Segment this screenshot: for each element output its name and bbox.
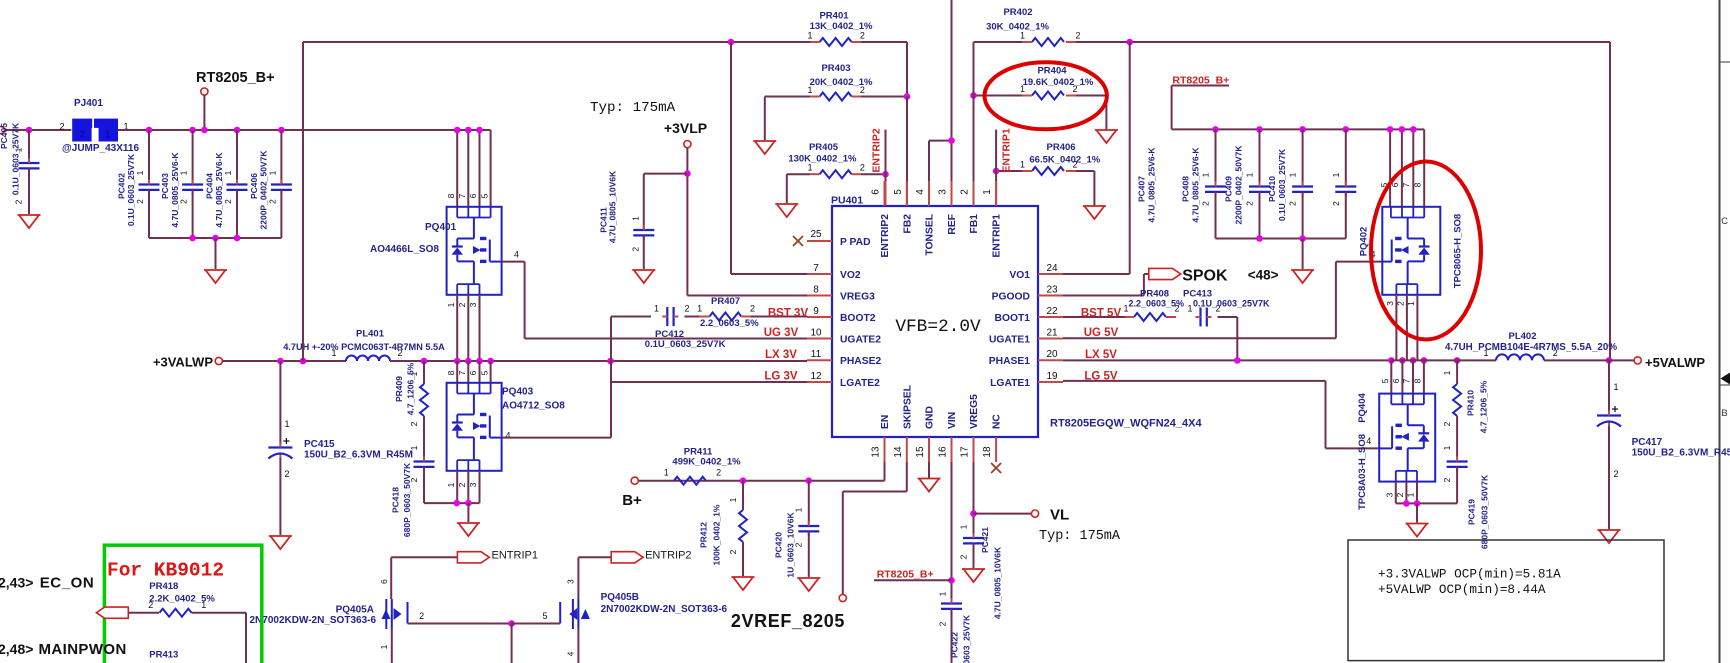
- svg-text:UG 3V: UG 3V: [764, 327, 799, 339]
- svg-text:6: 6: [468, 370, 478, 375]
- svg-text:0.1U_0603_25V7K: 0.1U_0603_25V7K: [126, 153, 136, 226]
- svg-text:PQ405A: PQ405A: [336, 605, 374, 616]
- svg-text:PQ404: PQ404: [1357, 392, 1368, 422]
- svg-text:PC402: PC402: [117, 173, 127, 199]
- svg-text:RT8205_B+: RT8205_B+: [196, 70, 275, 86]
- svg-text:1: 1: [1245, 172, 1255, 177]
- svg-text:3: 3: [565, 579, 575, 584]
- svg-text:P PAD: P PAD: [840, 237, 871, 248]
- svg-text:Typ: 175mA: Typ: 175mA: [590, 100, 676, 116]
- svg-text:680P_0603_50V7K: 680P_0603_50V7K: [1480, 474, 1490, 549]
- svg-text:20K_0402_1%: 20K_0402_1%: [810, 77, 873, 88]
- svg-text:11: 11: [811, 349, 822, 360]
- svg-text:2: 2: [684, 304, 689, 314]
- svg-text:5: 5: [480, 193, 490, 198]
- svg-text:+3VLP: +3VLP: [664, 120, 707, 136]
- svg-text:2: 2: [860, 163, 865, 173]
- svg-text:8: 8: [1413, 378, 1423, 383]
- svg-text:1: 1: [1288, 172, 1298, 177]
- svg-text:19.6K_0402_1%: 19.6K_0402_1%: [1023, 77, 1094, 88]
- svg-text:1: 1: [135, 170, 145, 175]
- svg-text:FB1: FB1: [969, 214, 980, 234]
- svg-text:PC415: PC415: [304, 439, 335, 450]
- svg-text:13K_0402_1%: 13K_0402_1%: [810, 21, 873, 32]
- svg-text:ENTRIP1: ENTRIP1: [1001, 128, 1013, 173]
- svg-text:1: 1: [409, 445, 419, 450]
- svg-text:ENTRIP2: ENTRIP2: [880, 214, 891, 258]
- svg-text:BST 3V: BST 3V: [768, 307, 809, 319]
- svg-text:ENTRIP2: ENTRIP2: [871, 128, 883, 173]
- svg-text:LGATE2: LGATE2: [840, 378, 880, 389]
- svg-text:For KB9012: For KB9012: [107, 560, 224, 582]
- svg-text:PR418: PR418: [149, 581, 178, 592]
- svg-text:4.7U_0805_10V6K: 4.7U_0805_10V6K: [993, 546, 1003, 619]
- svg-text:0.1U_0603_25V7K: 0.1U_0603_25V7K: [11, 122, 21, 195]
- svg-text:4: 4: [565, 651, 575, 656]
- svg-text:6: 6: [871, 189, 882, 195]
- svg-text:5: 5: [542, 611, 547, 621]
- svg-text:+3VALWP: +3VALWP: [153, 355, 213, 370]
- svg-text:C: C: [1721, 216, 1728, 227]
- svg-text:PQ405B: PQ405B: [601, 592, 639, 603]
- svg-text:UG 5V: UG 5V: [1084, 327, 1119, 339]
- svg-text:23: 23: [1046, 285, 1058, 296]
- svg-text:4: 4: [505, 431, 510, 441]
- svg-text:PR407: PR407: [711, 296, 740, 307]
- svg-text:PL402: PL402: [1509, 331, 1537, 342]
- svg-text:1: 1: [446, 302, 456, 307]
- svg-text:499K_0402_1%: 499K_0402_1%: [672, 457, 741, 468]
- svg-text:2: 2: [419, 611, 424, 621]
- svg-text:AO4712_SO8: AO4712_SO8: [502, 401, 565, 412]
- svg-text:1: 1: [1201, 172, 1211, 177]
- svg-text:2200P_0402_50V7K: 2200P_0402_50V7K: [259, 150, 269, 230]
- svg-text:2: 2: [1442, 421, 1452, 426]
- svg-text:16: 16: [938, 446, 949, 458]
- svg-text:6: 6: [379, 579, 389, 584]
- svg-text:4.7UH_PCMB104E-4R7MS_5.5A_20%: 4.7UH_PCMB104E-4R7MS_5.5A_20%: [1445, 342, 1617, 353]
- svg-text:PC410: PC410: [1267, 176, 1277, 202]
- svg-text:PC408: PC408: [1181, 176, 1191, 202]
- svg-text:ENTRIP2: ENTRIP2: [645, 550, 691, 562]
- svg-text:5: 5: [480, 370, 490, 375]
- svg-text:1: 1: [379, 644, 389, 649]
- svg-text:20: 20: [1046, 349, 1058, 360]
- svg-text:UGATE1: UGATE1: [989, 334, 1030, 345]
- svg-text:PR401: PR401: [819, 10, 849, 21]
- svg-text:PL401: PL401: [356, 329, 385, 340]
- svg-text:RT8205_B+: RT8205_B+: [877, 569, 934, 581]
- svg-text:PC418: PC418: [391, 487, 401, 513]
- svg-text:1: 1: [1442, 370, 1452, 375]
- svg-text:PR409: PR409: [394, 376, 404, 402]
- svg-text:14: 14: [893, 446, 904, 458]
- svg-text:4.7_1206_5%: 4.7_1206_5%: [1479, 380, 1489, 433]
- svg-text:2: 2: [938, 621, 948, 626]
- svg-text:8: 8: [446, 370, 456, 375]
- svg-text:+5VALWP OCP(min)=8.44A: +5VALWP OCP(min)=8.44A: [1378, 582, 1546, 597]
- svg-text:0.1U_0603_25V7K: 0.1U_0603_25V7K: [1193, 299, 1270, 309]
- svg-text:TONSEL: TONSEL: [925, 214, 936, 256]
- svg-text:TPC8A03-H_SO8: TPC8A03-H_SO8: [1357, 434, 1368, 510]
- svg-text:1: 1: [631, 216, 641, 221]
- svg-text:REF: REF: [947, 214, 958, 235]
- svg-text:1: 1: [1614, 382, 1619, 392]
- svg-text:2N7002KDW-2N_SOT363-6: 2N7002KDW-2N_SOT363-6: [601, 604, 728, 615]
- svg-text:PC421: PC421: [980, 527, 990, 553]
- svg-text:21: 21: [1046, 328, 1058, 339]
- svg-text:VFB=2.0V: VFB=2.0V: [895, 317, 981, 337]
- svg-text:LG 3V: LG 3V: [764, 371, 798, 383]
- svg-text:PC406: PC406: [249, 173, 259, 199]
- svg-text:EC_ON: EC_ON: [40, 575, 95, 592]
- svg-text:1: 1: [728, 497, 738, 502]
- svg-text:PU401: PU401: [831, 195, 863, 207]
- svg-text:5: 5: [893, 189, 904, 195]
- svg-text:4.7_1206_5%: 4.7_1206_5%: [406, 362, 416, 415]
- svg-text:1: 1: [654, 304, 659, 314]
- svg-text:BST 5V: BST 5V: [1081, 307, 1122, 319]
- svg-text:25: 25: [810, 229, 822, 240]
- svg-text:22: 22: [1046, 306, 1058, 317]
- svg-text:2: 2: [223, 199, 233, 204]
- svg-text:2: 2: [80, 130, 86, 141]
- svg-text:10: 10: [810, 328, 822, 339]
- svg-text:9: 9: [813, 306, 819, 317]
- svg-text:RT8205EGQW_WQFN24_4X4: RT8205EGQW_WQFN24_4X4: [1050, 418, 1202, 430]
- svg-text:PR410: PR410: [1466, 390, 1476, 416]
- svg-text:2,43>: 2,43>: [0, 575, 33, 591]
- svg-text:8: 8: [1413, 182, 1423, 187]
- svg-text:19: 19: [1046, 371, 1058, 382]
- svg-text:1: 1: [267, 170, 277, 175]
- svg-text:LG 5V: LG 5V: [1084, 371, 1118, 383]
- svg-text:2: 2: [59, 122, 64, 133]
- svg-text:4.7U_0805_25V6-K: 4.7U_0805_25V6-K: [1147, 147, 1157, 223]
- svg-text:2: 2: [860, 31, 865, 41]
- svg-text:VREG5: VREG5: [969, 394, 980, 429]
- svg-text:PJ401: PJ401: [74, 98, 103, 109]
- svg-text:AO4466L_SO8: AO4466L_SO8: [370, 244, 439, 255]
- svg-text:2: 2: [409, 421, 419, 426]
- svg-text:5: 5: [1380, 378, 1390, 383]
- svg-text:PR402: PR402: [1003, 7, 1032, 18]
- svg-text:2: 2: [267, 199, 277, 204]
- svg-text:2.2_0603_5%: 2.2_0603_5%: [1129, 299, 1185, 309]
- svg-text:PC405: PC405: [0, 123, 9, 149]
- svg-text:VREG3: VREG3: [840, 291, 875, 302]
- svg-text:VO1: VO1: [1009, 270, 1030, 281]
- svg-text:17: 17: [960, 446, 971, 458]
- svg-text:B: B: [1721, 408, 1727, 419]
- svg-text:2.2K_0402_5%: 2.2K_0402_5%: [149, 594, 215, 605]
- svg-text:VO2: VO2: [840, 270, 861, 281]
- svg-text:LGATE1: LGATE1: [990, 378, 1030, 389]
- svg-text:BOOT1: BOOT1: [995, 313, 1031, 324]
- svg-text:1: 1: [1331, 172, 1341, 177]
- svg-text:1: 1: [794, 507, 804, 512]
- svg-text:24: 24: [1046, 263, 1058, 274]
- svg-text:PC404: PC404: [205, 173, 215, 199]
- svg-text:LX 5V: LX 5V: [1085, 349, 1117, 361]
- svg-text:2: 2: [750, 304, 755, 314]
- svg-text:ENTRIP1: ENTRIP1: [492, 550, 538, 562]
- svg-text:3: 3: [1385, 301, 1395, 306]
- svg-text:4: 4: [915, 189, 926, 195]
- svg-text:15: 15: [915, 446, 926, 458]
- svg-text:PR412: PR412: [699, 522, 709, 548]
- svg-text:1U_0603_10V6K: 1U_0603_10V6K: [786, 512, 796, 578]
- svg-text:GND: GND: [925, 406, 936, 429]
- svg-text:4.7UH +-20% PCMC063T-4R7MN 5.5: 4.7UH +-20% PCMC063T-4R7MN 5.5A: [283, 342, 445, 352]
- svg-text:PHASE1: PHASE1: [989, 356, 1030, 367]
- svg-text:LX 3V: LX 3V: [765, 349, 797, 361]
- svg-text:2.2_0603_5%: 2.2_0603_5%: [700, 318, 759, 329]
- svg-text:4.7U_0805_25V6-K: 4.7U_0805_25V6-K: [214, 152, 224, 228]
- svg-text:1: 1: [982, 189, 993, 195]
- svg-text:2: 2: [1245, 201, 1255, 206]
- svg-text:7: 7: [813, 263, 819, 274]
- svg-text:MAINPWON: MAINPWON: [39, 641, 127, 658]
- svg-text:66.5K_0402_1%: 66.5K_0402_1%: [1029, 155, 1100, 166]
- svg-text:7: 7: [457, 193, 467, 198]
- svg-text:PC420: PC420: [774, 532, 784, 558]
- svg-text:@JUMP_43X116: @JUMP_43X116: [62, 143, 139, 154]
- svg-text:<48>: <48>: [1248, 268, 1279, 283]
- svg-text:1: 1: [105, 130, 111, 141]
- svg-text:BOOT2: BOOT2: [840, 313, 876, 324]
- svg-text:PC417: PC417: [1632, 437, 1663, 448]
- svg-text:PR406: PR406: [1047, 142, 1076, 153]
- svg-text:3: 3: [1385, 492, 1395, 497]
- svg-text:1: 1: [285, 419, 290, 429]
- svg-text:2: 2: [457, 482, 467, 487]
- svg-text:3: 3: [468, 302, 478, 307]
- svg-text:+3.3VALWP OCP(min)=5.81A: +3.3VALWP OCP(min)=5.81A: [1378, 567, 1561, 582]
- svg-text:NC: NC: [992, 414, 1003, 429]
- svg-text:PR405: PR405: [809, 142, 839, 153]
- svg-text:2: 2: [1075, 31, 1080, 41]
- svg-text:680P_0603_50V7K: 680P_0603_50V7K: [402, 462, 412, 537]
- svg-text:1: 1: [938, 591, 948, 596]
- svg-text:+5VALWP: +5VALWP: [1645, 355, 1705, 370]
- svg-text:0.1U_0603_25V7K: 0.1U_0603_25V7K: [1277, 148, 1287, 221]
- svg-text:PGOOD: PGOOD: [992, 291, 1030, 302]
- svg-text:ENTRIP1: ENTRIP1: [992, 214, 1003, 258]
- svg-text:B+: B+: [622, 492, 642, 509]
- svg-text:1: 1: [1187, 304, 1192, 314]
- svg-text:1: 1: [959, 524, 969, 529]
- svg-text:2: 2: [1442, 477, 1452, 482]
- svg-text:Typ: 175mA: Typ: 175mA: [1039, 529, 1121, 544]
- svg-text:7: 7: [1402, 378, 1412, 383]
- svg-text:PC422: PC422: [950, 632, 960, 658]
- svg-text:0.1U_0603_25V7K: 0.1U_0603_25V7K: [645, 339, 726, 350]
- svg-text:PC407: PC407: [1137, 176, 1147, 202]
- svg-text:PQ402: PQ402: [1359, 227, 1370, 257]
- svg-text:1: 1: [179, 170, 189, 175]
- svg-text:SKIPSEL: SKIPSEL: [902, 385, 913, 429]
- svg-text:8: 8: [813, 285, 819, 296]
- svg-text:2: 2: [135, 199, 145, 204]
- svg-text:2: 2: [716, 468, 721, 478]
- svg-text:PC403: PC403: [160, 173, 170, 199]
- svg-text:18: 18: [982, 446, 993, 458]
- svg-text:2: 2: [457, 302, 467, 307]
- svg-text:7: 7: [457, 370, 467, 375]
- svg-text:1: 1: [1442, 445, 1452, 450]
- svg-text:2: 2: [631, 247, 641, 252]
- svg-text:FB2: FB2: [902, 214, 913, 234]
- svg-text:2N7002KDW-2N_SOT363-6: 2N7002KDW-2N_SOT363-6: [250, 615, 377, 626]
- svg-text:VIN: VIN: [947, 412, 958, 429]
- svg-text:150U_B2_6.3VM_R45M: 150U_B2_6.3VM_R45M: [304, 450, 413, 461]
- svg-text:1: 1: [223, 170, 233, 175]
- svg-text:12: 12: [810, 371, 822, 382]
- svg-text:2: 2: [1201, 201, 1211, 206]
- svg-text:PR404: PR404: [1037, 66, 1067, 77]
- svg-text:4.7U_0805_25V6-K: 4.7U_0805_25V6-K: [1191, 147, 1201, 223]
- svg-text:UGATE2: UGATE2: [840, 334, 881, 345]
- svg-text:PR413: PR413: [149, 650, 178, 661]
- svg-text:4.7U_0805_25V6-K: 4.7U_0805_25V6-K: [170, 152, 180, 228]
- svg-text:2VREF_8205: 2VREF_8205: [731, 611, 845, 631]
- svg-text:2: 2: [959, 554, 969, 559]
- svg-text:PQ403: PQ403: [502, 387, 534, 398]
- svg-text:TPC8065-H_SO8: TPC8065-H_SO8: [1453, 214, 1464, 288]
- svg-text:2: 2: [14, 199, 24, 204]
- svg-text:2: 2: [1288, 201, 1298, 206]
- svg-text:1: 1: [1020, 160, 1025, 170]
- svg-text:2: 2: [179, 199, 189, 204]
- svg-text:130K_0402_1%: 130K_0402_1%: [788, 154, 857, 165]
- svg-text:150U_B2_6.3VM_R45M: 150U_B2_6.3VM_R45M: [1632, 448, 1730, 459]
- svg-text:PC409: PC409: [1224, 176, 1234, 202]
- svg-text:8: 8: [446, 193, 456, 198]
- svg-text:1: 1: [807, 31, 812, 41]
- svg-text:4.7U_0805_10V6K: 4.7U_0805_10V6K: [608, 170, 618, 243]
- svg-text:PR403: PR403: [821, 63, 850, 74]
- svg-text:1: 1: [446, 482, 456, 487]
- svg-text:2: 2: [728, 549, 738, 554]
- svg-text:6: 6: [1391, 378, 1401, 383]
- svg-text:30K_0402_1%: 30K_0402_1%: [986, 22, 1049, 33]
- svg-text:2: 2: [1614, 469, 1619, 479]
- svg-text:2: 2: [285, 469, 290, 479]
- svg-text:PHASE2: PHASE2: [840, 356, 881, 367]
- svg-text:2: 2: [1331, 201, 1341, 206]
- svg-text:100K_0402_1%: 100K_0402_1%: [712, 504, 722, 565]
- svg-text:VL: VL: [1050, 507, 1069, 524]
- svg-text:7: 7: [1401, 182, 1411, 187]
- svg-text:1: 1: [664, 468, 669, 478]
- svg-text:0.1U_0603_25V7K: 0.1U_0603_25V7K: [962, 614, 972, 663]
- svg-text:PC419: PC419: [1467, 499, 1477, 525]
- svg-text:6: 6: [468, 193, 478, 198]
- svg-text:2: 2: [960, 189, 971, 195]
- svg-text:EN: EN: [880, 415, 891, 429]
- svg-text:2,48>: 2,48>: [0, 641, 33, 657]
- svg-text:3: 3: [468, 482, 478, 487]
- svg-text:13: 13: [871, 446, 882, 458]
- svg-text:1: 1: [697, 304, 702, 314]
- svg-text:4: 4: [514, 250, 519, 260]
- svg-text:PQ401: PQ401: [425, 222, 457, 233]
- svg-text:SPOK: SPOK: [1182, 267, 1228, 284]
- svg-text:2200P_0402_50V7K: 2200P_0402_50V7K: [1234, 145, 1244, 225]
- svg-text:3: 3: [938, 189, 949, 195]
